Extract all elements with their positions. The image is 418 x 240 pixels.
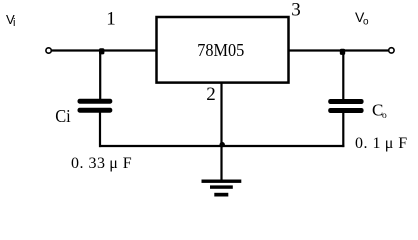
label Co <box>372 101 387 122</box>
svg-text:2: 2 <box>206 84 216 105</box>
svg-text:i: i <box>13 17 15 29</box>
wire Ci to bottom rail <box>99 113 101 148</box>
svg-text:1: 1 <box>106 9 116 30</box>
label Vi <box>6 12 15 29</box>
svg-text:0. 1 μ F: 0. 1 μ F <box>355 135 408 152</box>
svg-text:0. 33 μ F: 0. 33 μ F <box>71 155 132 172</box>
bottom rail wire <box>99 145 344 147</box>
svg-text:3: 3 <box>291 0 301 21</box>
svg-text:o: o <box>382 111 387 121</box>
junction node GND <box>220 142 225 147</box>
junction node B <box>340 49 345 55</box>
capacitor Ci <box>78 99 113 113</box>
wire to Co <box>342 51 344 100</box>
label Vo <box>355 9 369 28</box>
wire to Ci <box>99 51 101 99</box>
capacitor Co <box>328 99 363 113</box>
regulator U1 78M05 <box>157 17 289 83</box>
svg-text:o: o <box>363 17 369 28</box>
ground <box>202 180 242 197</box>
input terminal Vi <box>46 48 51 53</box>
junction node A <box>99 48 104 54</box>
svg-text:Ci: Ci <box>55 106 70 126</box>
wire Co to bottom rail <box>342 113 344 147</box>
wire pin1 <box>52 49 157 51</box>
wire pin3 <box>288 49 389 51</box>
svg-text:78M05: 78M05 <box>197 40 244 60</box>
wire pin2 <box>220 83 222 180</box>
output terminal Vo <box>389 48 394 53</box>
